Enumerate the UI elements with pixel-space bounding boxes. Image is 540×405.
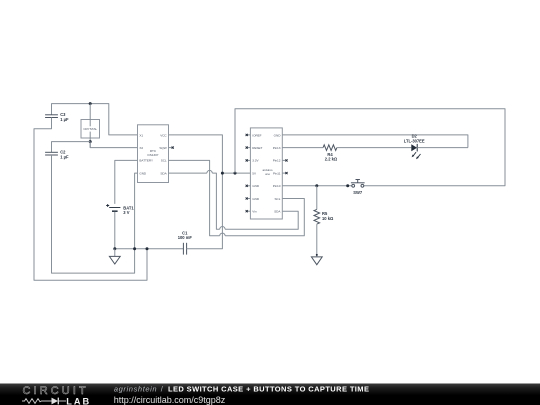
svg-text:3 V: 3 V xyxy=(123,210,129,215)
LED D2 LTL-307EE xyxy=(404,133,425,159)
battery BAT1 3V xyxy=(106,204,134,215)
svg-text:VCC: VCC xyxy=(160,133,167,137)
pin 3.3V no-connect xyxy=(246,159,251,161)
node R5 junction xyxy=(315,184,318,187)
svg-text:LAB: LAB xyxy=(66,396,91,405)
node R5 ground xyxy=(316,254,318,256)
wire R5 down xyxy=(316,186,318,210)
wire top line C3/crystal/X1 xyxy=(52,104,138,135)
svg-text:SDA: SDA xyxy=(160,171,167,175)
ground for R5 xyxy=(311,257,322,265)
pin IOREF no-connect xyxy=(246,134,251,136)
svg-text:1 µF: 1 µF xyxy=(60,117,69,122)
node crystal/X2/C2 junction xyxy=(89,140,92,143)
capacitor C2 xyxy=(45,150,69,160)
svg-text:RESET: RESET xyxy=(252,146,262,150)
svg-text:GND: GND xyxy=(252,197,260,201)
pin SQW no-connect xyxy=(169,147,174,149)
svg-text:agrinshtein/LED SWITCH CASE +: agrinshtein/LED SWITCH CASE + BUTTONS TO… xyxy=(114,385,369,394)
svg-text:Pin12: Pin12 xyxy=(273,159,281,163)
svg-text:CRYSTAL: CRYSTAL xyxy=(83,127,97,131)
pin Vin no-connect xyxy=(246,210,251,212)
wire RTC VCC to 5V node xyxy=(169,135,223,173)
logo diode xyxy=(52,398,59,405)
svg-text:1 µF: 1 µF xyxy=(60,154,69,159)
wire SCL RTC to arduino xyxy=(169,160,220,235)
wire arduino GND to LED cathode side xyxy=(282,135,468,148)
node C2 return xyxy=(133,247,136,250)
svg-text:X2: X2 xyxy=(139,146,143,150)
svg-text:Vin: Vin xyxy=(252,210,257,214)
wire switch loop (5V up over top to right) xyxy=(235,109,505,186)
svg-text:GND: GND xyxy=(274,133,282,137)
svg-text:Pin11: Pin11 xyxy=(273,171,281,175)
svg-text:DS1307: DS1307 xyxy=(148,153,159,157)
node crystal top junction xyxy=(89,102,92,105)
node outer-left loop xyxy=(146,247,149,250)
wire C1 right up to 5V node xyxy=(187,173,223,249)
IC U1 RTC DS1307 xyxy=(138,125,169,183)
wire C2 top to junction xyxy=(52,142,91,153)
resistor R4 2.2k xyxy=(323,145,338,162)
svg-text:IOREF: IOREF xyxy=(252,133,261,137)
svg-text:BATTERY: BATTERY xyxy=(139,159,153,163)
svg-text:X1: X1 xyxy=(139,133,143,137)
wire SDA RTC to arduino xyxy=(169,172,207,174)
wire 5V rail to arduino xyxy=(222,172,250,174)
wire ground rail xyxy=(115,248,184,250)
pin RESET no-connect xyxy=(246,147,251,149)
footer banner xyxy=(0,384,540,405)
svg-text:http://circuitlab.com/c9tgp8z: http://circuitlab.com/c9tgp8z xyxy=(114,395,226,405)
svg-text:CIRCUIT: CIRCUIT xyxy=(23,385,89,397)
node switch-left junction xyxy=(346,184,349,187)
IC U2 arduino uno xyxy=(250,128,282,219)
wire C3 bottom to outer-left loop xyxy=(34,118,147,281)
wire LED cathode to GND wire xyxy=(417,147,468,149)
svg-text:10 kΩ: 10 kΩ xyxy=(322,216,334,221)
node 5V/VCC junction xyxy=(221,172,224,175)
capacitor C1 100mF xyxy=(178,230,193,254)
svg-text:Pin10: Pin10 xyxy=(273,184,281,188)
wire C2 bottom return xyxy=(52,155,135,273)
switch SW7 xyxy=(351,180,365,195)
pin Pin12 no-connect xyxy=(282,159,287,161)
svg-text:LTL-307EE: LTL-307EE xyxy=(404,138,425,143)
svg-text:GND: GND xyxy=(252,184,260,188)
wire junction to X2 xyxy=(90,142,137,148)
wire RTC GND pin down xyxy=(135,173,138,249)
svg-text:SW7: SW7 xyxy=(353,190,363,195)
svg-text:GND: GND xyxy=(139,171,147,175)
pin Pin11 no-connect xyxy=(282,172,287,174)
wire BAT1 to ground rail xyxy=(114,212,116,249)
crystal XTAL1 xyxy=(81,104,100,148)
logo zigzag resistor xyxy=(22,399,52,404)
wire R5 to ground xyxy=(316,224,318,257)
node 5V/switch-loop junction xyxy=(234,172,237,175)
svg-text:SCL: SCL xyxy=(275,197,281,201)
wire Pin13 to R4 xyxy=(282,147,323,149)
wire R4 to LED xyxy=(337,147,411,149)
pin GND2 no-connect xyxy=(246,197,251,199)
resistor R5 10k xyxy=(314,209,334,224)
node battery/ground xyxy=(113,247,116,250)
pin GND no-connect xyxy=(246,185,251,187)
svg-text:SCL: SCL xyxy=(161,159,167,163)
svg-text:SQW: SQW xyxy=(159,146,166,150)
svg-text:2.2 kΩ: 2.2 kΩ xyxy=(325,157,338,162)
svg-text:uno: uno xyxy=(265,172,270,176)
capacitor C3 xyxy=(45,112,69,122)
ground xyxy=(109,249,120,264)
svg-text:SDA: SDA xyxy=(274,210,281,214)
svg-text:100 mF: 100 mF xyxy=(178,235,193,240)
wire BATTERY pin to BAT1 xyxy=(115,160,138,204)
svg-text:3.3V: 3.3V xyxy=(252,159,259,163)
svg-text:Pin13: Pin13 xyxy=(273,146,281,150)
wire Pin10 to switch xyxy=(282,185,352,187)
